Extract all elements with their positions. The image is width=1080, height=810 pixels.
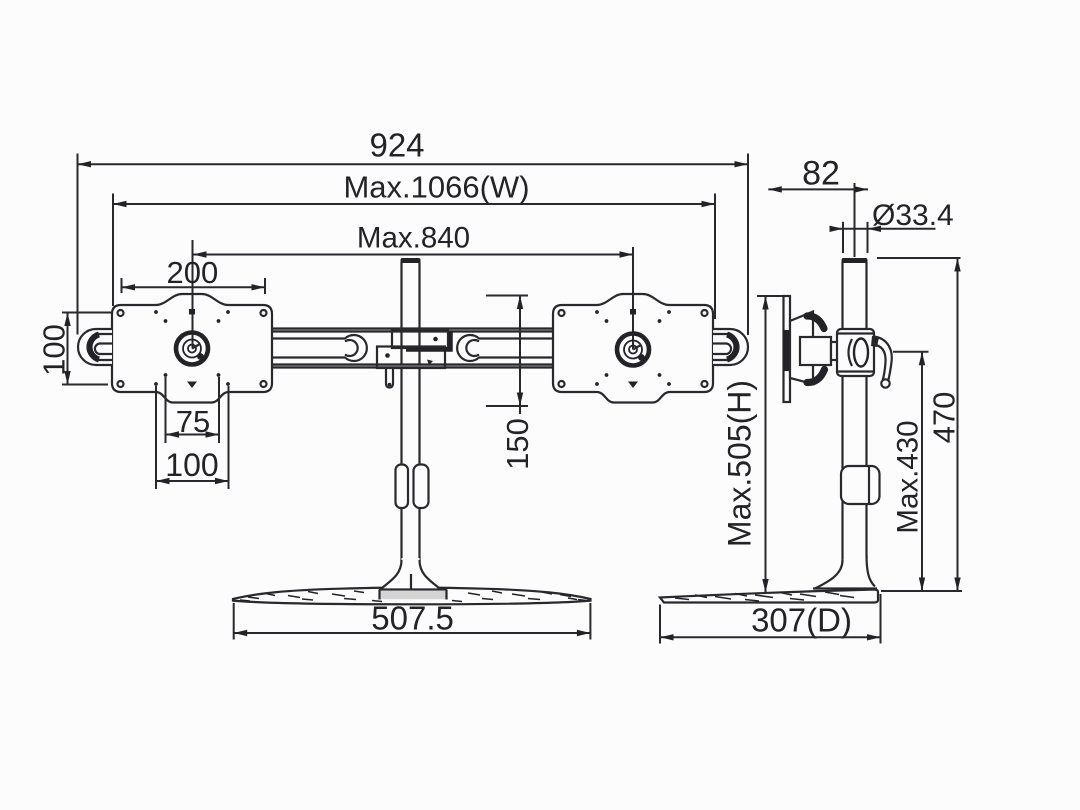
svg-text:507.5: 507.5 [371,600,454,637]
svg-text:470: 470 [927,392,962,444]
svg-text:307(D): 307(D) [751,602,852,639]
svg-text:150: 150 [500,418,535,470]
svg-text:Max.1066(W): Max.1066(W) [343,170,529,205]
svg-text:100: 100 [165,447,218,483]
svg-text:75: 75 [176,404,210,439]
svg-text:100: 100 [37,324,72,376]
svg-text:Max.505(H): Max.505(H) [722,380,758,547]
svg-text:82: 82 [802,155,840,193]
svg-text:Max.430: Max.430 [892,420,925,533]
svg-text:200: 200 [167,255,219,290]
svg-text:Ø33.4: Ø33.4 [872,199,954,232]
svg-text:Max.840: Max.840 [357,222,470,255]
svg-text:924: 924 [369,127,424,164]
